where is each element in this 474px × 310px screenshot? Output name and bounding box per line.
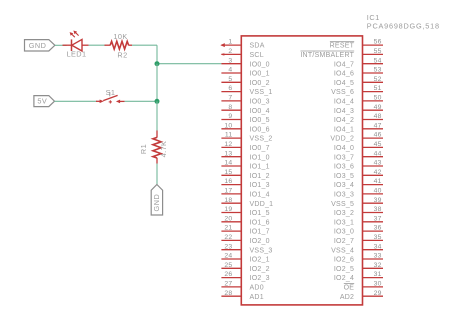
- svg-text:38: 38: [374, 206, 382, 213]
- svg-text:34: 34: [374, 243, 382, 250]
- svg-text:IO1_1: IO1_1: [250, 164, 270, 171]
- pin 40 IO3_3: [334, 188, 383, 199]
- svg-text:IO3_1: IO3_1: [334, 219, 354, 226]
- pin 25 IO2_2: [221, 262, 269, 273]
- svg-text:40: 40: [374, 188, 382, 195]
- wire node to chip pin 3 IO0_0: [157, 63, 221, 65]
- svg-text:44: 44: [374, 150, 382, 157]
- svg-text:IO4_0: IO4_0: [334, 145, 354, 152]
- svg-text:IO1_2: IO1_2: [250, 173, 270, 180]
- svg-text:VDD_2: VDD_2: [330, 136, 354, 143]
- svg-text:5: 5: [228, 76, 232, 83]
- svg-text:6: 6: [228, 85, 232, 92]
- svg-text:47: 47: [374, 122, 382, 129]
- svg-text:14: 14: [224, 160, 232, 167]
- svg-text:VSS_1: VSS_1: [250, 89, 273, 96]
- label IC1: [367, 13, 380, 22]
- pin 44 IO3_7: [334, 150, 383, 161]
- svg-text:S1: S1: [106, 88, 116, 97]
- svg-text:50: 50: [374, 95, 382, 102]
- pin 53 IO4_6: [334, 67, 383, 78]
- svg-text:VSS_5: VSS_5: [331, 201, 354, 208]
- svg-text:7: 7: [228, 95, 232, 102]
- pin 41 IO3_4: [334, 178, 383, 189]
- svg-text:5V: 5V: [37, 97, 47, 106]
- svg-text:33: 33: [374, 253, 382, 260]
- pin 17 IO1_4: [221, 188, 269, 199]
- svg-text:IO3_6: IO3_6: [334, 164, 354, 171]
- svg-text:12: 12: [224, 141, 232, 148]
- svg-text:IO2_1: IO2_1: [250, 257, 270, 264]
- label IC1 value PCA9698DGG,518: [367, 21, 440, 30]
- pin 6 VSS_1: [221, 85, 272, 96]
- svg-text:IO1_6: IO1_6: [250, 219, 270, 226]
- svg-text:IO2_4: IO2_4: [334, 275, 354, 282]
- svg-text:IO2_6: IO2_6: [334, 257, 354, 264]
- svg-text:IO4_1: IO4_1: [334, 126, 354, 133]
- svg-text:IO2_3: IO2_3: [250, 275, 270, 282]
- svg-text:IO4_3: IO4_3: [334, 108, 354, 115]
- svg-text:11: 11: [225, 132, 233, 139]
- resistor R1: [153, 131, 161, 164]
- svg-text:29: 29: [374, 290, 382, 297]
- svg-text:4.7K: 4.7K: [159, 141, 168, 158]
- svg-text:16: 16: [224, 178, 232, 185]
- svg-text:AD0: AD0: [250, 285, 264, 292]
- svg-text:VSS_2: VSS_2: [250, 136, 273, 143]
- svg-text:19: 19: [224, 206, 232, 213]
- svg-text:GND: GND: [29, 41, 47, 50]
- pin 9 IO0_5: [221, 113, 269, 124]
- ground flag GND (top left): [25, 40, 55, 51]
- svg-text:36: 36: [374, 225, 382, 232]
- svg-text:RESET: RESET: [330, 43, 355, 50]
- svg-text:SDA: SDA: [250, 43, 265, 50]
- pin 39 VSS_5: [331, 197, 383, 208]
- svg-text:IO0_3: IO0_3: [250, 99, 270, 106]
- op-amp/IC body PCA9698 IC1: [241, 36, 362, 305]
- wire 5V flag to switch S1: [55, 100, 98, 102]
- pin 21 IO1_7: [221, 225, 269, 236]
- label R2 value 10K: [113, 32, 127, 41]
- svg-text:IO4_6: IO4_6: [334, 71, 354, 78]
- svg-text:LED1: LED1: [67, 49, 87, 58]
- svg-text:IO0_7: IO0_7: [250, 145, 270, 152]
- svg-text:IO0_6: IO0_6: [250, 126, 270, 133]
- pin 4 IO0_1: [221, 67, 269, 78]
- pin 13 IO1_0: [221, 150, 269, 161]
- ground flag GND (bottom): [151, 185, 162, 216]
- svg-text:IO3_4: IO3_4: [334, 182, 354, 189]
- svg-text:15: 15: [224, 169, 232, 176]
- pin 2 SCL: [221, 48, 264, 59]
- pin 27 AD0: [221, 281, 263, 292]
- svg-text:IO1_7: IO1_7: [250, 229, 270, 236]
- svg-text:30: 30: [374, 281, 382, 288]
- pin 12 IO0_7: [221, 141, 269, 152]
- svg-text:VSS_4: VSS_4: [331, 247, 354, 254]
- svg-text:26: 26: [224, 271, 232, 278]
- svg-text:42: 42: [374, 169, 382, 176]
- svg-text:IO4_5: IO4_5: [334, 80, 354, 87]
- svg-text:54: 54: [374, 57, 382, 64]
- pin 22 IO2_0: [221, 234, 269, 245]
- svg-text:IO0_5: IO0_5: [250, 117, 270, 124]
- pin 38 IO3_2: [334, 206, 383, 217]
- svg-text:VDD_1: VDD_1: [250, 201, 274, 208]
- svg-text:R1: R1: [139, 144, 148, 154]
- label S1: [106, 88, 116, 97]
- svg-text:21: 21: [224, 225, 232, 232]
- pin 30 OE: [344, 281, 383, 292]
- pin 18 VDD_1: [221, 197, 273, 208]
- svg-text:IO1_5: IO1_5: [250, 210, 270, 217]
- svg-text:VSS_6: VSS_6: [331, 89, 354, 96]
- svg-text:IO3_5: IO3_5: [334, 173, 354, 180]
- pin 8 IO0_4: [221, 104, 269, 115]
- svg-text:25: 25: [224, 262, 232, 269]
- pin 42 IO3_5: [334, 169, 383, 180]
- pin 35 IO2_7: [334, 234, 383, 245]
- wire LED1 to R2: [89, 44, 106, 46]
- pin 50 IO4_4: [334, 95, 383, 106]
- svg-text:SCL: SCL: [250, 52, 264, 59]
- svg-text:IO1_3: IO1_3: [250, 182, 270, 189]
- pin 14 IO1_1: [221, 160, 269, 171]
- svg-text:53: 53: [374, 67, 382, 74]
- svg-text:IO2_2: IO2_2: [250, 266, 270, 273]
- wire junction down to R1: [156, 101, 158, 131]
- pin 37 IO3_1: [334, 215, 383, 226]
- svg-text:4: 4: [228, 67, 232, 74]
- svg-text:55: 55: [374, 48, 382, 55]
- svg-text:IO0_1: IO0_1: [250, 71, 270, 78]
- svg-text:R2: R2: [117, 51, 127, 60]
- svg-text:IO0_2: IO0_2: [250, 80, 270, 87]
- svg-text:56: 56: [374, 39, 382, 46]
- pin 10 IO0_6: [221, 122, 269, 133]
- wire GND flag to LED1 cathode: [55, 44, 67, 46]
- svg-text:8: 8: [228, 104, 232, 111]
- label R1 value 4.7K: [159, 141, 168, 158]
- svg-text:10K: 10K: [113, 32, 127, 41]
- pin 7 IO0_3: [221, 95, 269, 106]
- svg-text:52: 52: [374, 76, 382, 83]
- svg-text:IO4_2: IO4_2: [334, 117, 354, 124]
- svg-text:IO1_0: IO1_0: [250, 154, 270, 161]
- svg-text:41: 41: [374, 178, 382, 185]
- svg-text:AD2: AD2: [340, 294, 354, 301]
- junction at pin3 net: [155, 61, 160, 66]
- svg-text:IO3_7: IO3_7: [334, 154, 354, 161]
- wire switch to junction: [125, 100, 157, 102]
- junction at switch net: [155, 99, 160, 104]
- svg-text:IO0_0: IO0_0: [250, 61, 270, 68]
- pin 33 IO2_6: [334, 253, 383, 264]
- label R2 name: [117, 51, 127, 60]
- pin 15 IO1_2: [221, 169, 269, 180]
- svg-text:IO3_2: IO3_2: [334, 210, 354, 217]
- pin 47 IO4_1: [334, 122, 383, 133]
- resistor R2: [105, 41, 133, 49]
- svg-text:IO2_5: IO2_5: [334, 266, 354, 273]
- svg-text:IO4_7: IO4_7: [334, 61, 354, 68]
- pin 54 IO4_7: [334, 57, 383, 68]
- svg-text:22: 22: [224, 234, 232, 241]
- pin 56 RESET: [330, 39, 383, 50]
- svg-text:43: 43: [374, 160, 382, 167]
- svg-text:32: 32: [374, 262, 382, 269]
- wire R1 to GND flag: [156, 164, 158, 185]
- svg-text:20: 20: [224, 215, 232, 222]
- pin 24 IO2_1: [221, 253, 269, 264]
- pin 31 IO2_4: [334, 271, 383, 282]
- switch S1: [96, 92, 125, 104]
- LED LED1: [63, 31, 89, 52]
- svg-text:18: 18: [224, 197, 232, 204]
- pin 20 IO1_6: [221, 215, 269, 226]
- pin 28 AD1: [221, 290, 263, 301]
- svg-text:49: 49: [374, 104, 382, 111]
- pin 34 VSS_4: [331, 243, 383, 254]
- svg-text:48: 48: [374, 113, 382, 120]
- svg-text:46: 46: [374, 132, 382, 139]
- svg-text:AD1: AD1: [250, 294, 264, 301]
- svg-text:17: 17: [224, 188, 232, 195]
- svg-text:35: 35: [374, 234, 382, 241]
- svg-text:37: 37: [374, 215, 382, 222]
- svg-text:45: 45: [374, 141, 382, 148]
- svg-text:GND: GND: [152, 194, 161, 212]
- pin 19 IO1_5: [221, 206, 269, 217]
- svg-text:IO2_0: IO2_0: [250, 238, 270, 245]
- supply flag 5V: [34, 96, 55, 107]
- pin 3 IO0_0: [221, 57, 269, 68]
- pin 32 IO2_5: [334, 262, 383, 273]
- pin 49 IO4_3: [334, 104, 383, 115]
- label LED1: [67, 49, 87, 58]
- pin 1 SDA: [220, 39, 264, 50]
- svg-text:1: 1: [228, 39, 232, 46]
- svg-text:IO2_7: IO2_7: [334, 238, 354, 245]
- pin 5 IO0_2: [221, 76, 269, 87]
- svg-text:IO3_0: IO3_0: [334, 229, 354, 236]
- svg-text:23: 23: [224, 243, 232, 250]
- svg-text:13: 13: [224, 150, 232, 157]
- svg-text:IO4_4: IO4_4: [334, 99, 354, 106]
- svg-text:VSS_3: VSS_3: [250, 247, 273, 254]
- svg-text:IO1_4: IO1_4: [250, 192, 270, 199]
- pin 43 IO3_6: [334, 160, 383, 171]
- svg-text:PCA9698DGG,518: PCA9698DGG,518: [367, 21, 440, 30]
- svg-text:OE: OE: [344, 285, 355, 292]
- svg-text:24: 24: [224, 253, 232, 260]
- svg-text:IO0_4: IO0_4: [250, 108, 270, 115]
- svg-text:31: 31: [374, 271, 382, 278]
- svg-text:27: 27: [224, 281, 232, 288]
- pin 16 IO1_3: [221, 178, 269, 189]
- svg-text:28: 28: [224, 290, 232, 297]
- wire R2 to corner node: [132, 45, 157, 64]
- pin 55 INT/SMBALERT: [300, 48, 383, 59]
- pin 51 VSS_6: [331, 85, 383, 96]
- pin 23 VSS_3: [221, 243, 272, 254]
- svg-text:3: 3: [228, 57, 232, 64]
- pin 45 IO4_0: [334, 141, 383, 152]
- label R1 name: [139, 144, 148, 154]
- pin 46 VDD_2: [330, 132, 383, 143]
- svg-text:IO3_3: IO3_3: [334, 192, 354, 199]
- svg-text:2: 2: [228, 48, 232, 55]
- pin 26 IO2_3: [221, 271, 269, 282]
- pin 29 AD2: [340, 290, 383, 301]
- pin 52 IO4_5: [334, 76, 383, 87]
- wire vertical net segment: [156, 64, 158, 102]
- svg-text:9: 9: [228, 113, 232, 120]
- pin 48 IO4_2: [334, 113, 383, 124]
- svg-text:INT/SMBALERT: INT/SMBALERT: [300, 52, 354, 59]
- svg-text:10: 10: [224, 122, 232, 129]
- pin 11 VSS_2: [221, 132, 272, 143]
- svg-text:39: 39: [374, 197, 382, 204]
- svg-text:51: 51: [374, 85, 382, 92]
- pin 36 IO3_0: [334, 225, 383, 236]
